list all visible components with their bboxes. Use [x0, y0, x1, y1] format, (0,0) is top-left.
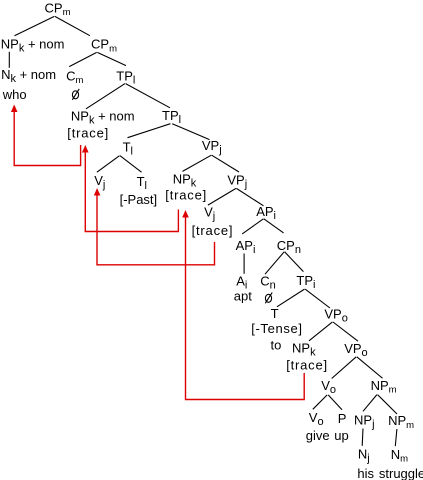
svg-text:Tl: Tl	[137, 174, 147, 192]
edge APi2-Ai	[243, 254, 245, 274]
edge VPo2-Vo1	[332, 357, 357, 379]
edge VPj2-APi1	[236, 188, 263, 205]
edge TPl2-Tl	[128, 124, 171, 138]
edge NPk+nom-Nk+nom	[8, 52, 10, 68]
svg-text:Cn: Cn	[260, 274, 276, 292]
edge APi1-APi2	[242, 219, 263, 234]
edge TPi-VPo1	[305, 289, 330, 308]
svg-text:apt: apt	[234, 289, 252, 304]
arrowhead at who	[11, 105, 18, 113]
svg-text:NPk + nom: NPk + nom	[1, 37, 65, 55]
svg-text:VPo: VPo	[344, 341, 367, 359]
svg-text:[-Tense]: [-Tense]	[251, 321, 302, 336]
svg-text:[trace]: [trace]	[67, 126, 109, 141]
svg-text:Tl: Tl	[123, 140, 133, 158]
svg-text:NPm: NPm	[388, 413, 414, 431]
svg-text:Vj: Vj	[204, 205, 215, 223]
movement arrow trace2 to trace1	[85, 152, 178, 232]
edge VPo1-VPo2	[333, 322, 358, 341]
edge Vo1-P	[328, 395, 342, 410]
edge APi1-CPn	[264, 219, 284, 233]
movement arrow trace3 to Vj	[97, 195, 215, 265]
svg-text:[trace]: [trace]	[192, 223, 234, 238]
arrowhead at trace1	[82, 145, 89, 153]
svg-text:give: give	[306, 428, 330, 443]
edge TPl1-TPl2	[126, 84, 170, 108]
svg-text:NPk: NPk	[292, 340, 316, 358]
svg-text:Nk + nom: Nk + nom	[1, 67, 56, 85]
edge VPj1-VPj2	[212, 155, 239, 172]
terminal null under Cm	[72, 89, 79, 100]
edge Vo1-Vo2	[313, 395, 327, 409]
edge VPj2-Vjb	[208, 188, 236, 205]
svg-text:TPl: TPl	[162, 108, 181, 126]
svg-text:Vo: Vo	[321, 378, 336, 396]
svg-text:[trace]: [trace]	[165, 188, 207, 203]
svg-text:CPm: CPm	[45, 1, 71, 19]
svg-text:CPm: CPm	[91, 37, 117, 55]
edge VPj1-NPka	[183, 155, 212, 171]
svg-text:TPi: TPi	[296, 273, 315, 291]
svg-text:VPo: VPo	[324, 307, 347, 325]
svg-text:CPn: CPn	[277, 238, 301, 256]
svg-text:Nm: Nm	[391, 447, 408, 465]
edge VPo2-NPm1	[357, 357, 383, 378]
svg-text:to: to	[271, 338, 282, 353]
svg-text:his: his	[357, 466, 374, 480]
edge CPm-NPk+nom	[15, 16, 55, 35]
svg-text:APi: APi	[256, 204, 276, 222]
edge NPm1-NPj	[363, 395, 377, 412]
svg-text:P: P	[338, 411, 347, 426]
svg-text:VPj: VPj	[202, 138, 222, 156]
svg-text:[trace]: [trace]	[286, 357, 328, 372]
svg-text:Vo: Vo	[309, 410, 324, 428]
svg-text:NPk + nom: NPk + nom	[71, 109, 135, 127]
movement arrow trace1 to who	[14, 112, 80, 166]
arrowhead at Vj	[94, 188, 101, 196]
svg-text:APi: APi	[236, 238, 256, 256]
svg-text:Cm: Cm	[66, 68, 83, 86]
svg-text:struggle: struggle	[379, 466, 423, 480]
edge TPi-T	[277, 289, 305, 307]
edge Tla-Vja	[97, 156, 120, 173]
edge CPm2-TPl1	[97, 52, 126, 65]
edge NPm1-NPm2	[378, 395, 398, 414]
edge TPl2-VPj1	[172, 124, 209, 140]
svg-text:who: who	[2, 87, 27, 102]
svg-text:Nj: Nj	[358, 446, 370, 464]
svg-text:NPm: NPm	[371, 378, 397, 396]
terminal null under Cn	[265, 292, 272, 303]
svg-text:up: up	[334, 428, 348, 443]
arrowhead at trace2	[182, 210, 189, 218]
svg-text:NPj: NPj	[354, 412, 375, 430]
edge VPo1-NPkb	[309, 322, 332, 341]
edge TPl1-NPk+nom trace	[86, 84, 125, 109]
edge CPn-Cn	[265, 252, 284, 274]
svg-text:[-Past]: [-Past]	[120, 192, 158, 207]
edge CPn-TPi	[285, 252, 304, 272]
edge CPm2-Cm	[69, 52, 97, 66]
movement arrow trace4 to trace2	[186, 217, 305, 400]
svg-text:Vj: Vj	[94, 173, 105, 191]
svg-text:VPj: VPj	[227, 173, 247, 191]
svg-text:T: T	[271, 306, 279, 321]
edge NPj-Nj	[361, 429, 364, 446]
edge CPm-CPm2	[55, 16, 90, 35]
edge NPm2-Nm	[395, 429, 397, 446]
edge Tla-Tlb	[120, 156, 142, 173]
